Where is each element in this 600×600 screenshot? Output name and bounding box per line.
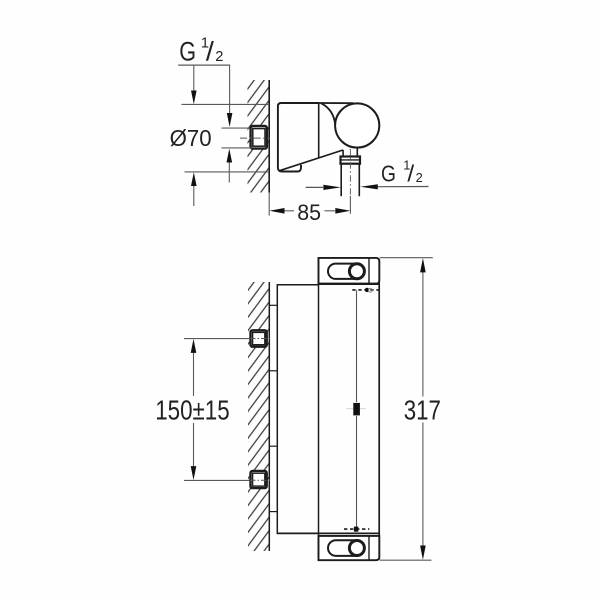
wall hatching (top figure) [248,80,269,193]
holder top extension line [182,103,270,105]
bottom cap screw circle [349,541,364,556]
holder top edge [318,102,354,104]
leader to holder top [193,65,195,91]
svg-text:150±15: 150±15 [155,394,230,425]
union nut lower [251,471,267,488]
body right edge [378,259,380,560]
body internal vertical line [318,258,320,560]
inlet nut centerline [240,137,270,139]
upper nut centerline [250,338,270,340]
inlet nut in wall (top figure) [251,126,267,149]
dimension 85 line [285,210,295,212]
holder arm bottom diagonal [279,150,343,171]
Ø70 extension line bottom [222,147,253,149]
svg-text:2: 2 [215,49,223,65]
top screw dot [365,288,369,292]
holder bottom extension line [185,171,270,173]
svg-text:317: 317 [404,395,441,426]
top union cap [319,258,380,284]
outlet nut mid line [341,159,361,161]
svg-text:/: / [407,160,415,186]
leader to nut top [229,65,231,113]
outlet neck below ball [343,148,357,157]
top cap screw circle [349,264,364,279]
Ø70 lower arrow [228,162,230,183]
wall surface line (top figure) [268,80,270,193]
lower nut centerline [250,479,270,481]
bracket tick 3 [270,445,277,447]
svg-text:G: G [381,160,396,186]
outlet pipe [341,164,359,196]
Ø70 extension line top [222,127,250,129]
holder mounting plate [278,103,319,172]
svg-text:Ø70: Ø70 [170,125,212,151]
bottom dashed line [344,528,369,530]
outlet nut [341,157,361,164]
G1/2 leader underline [178,64,230,66]
wall line extension to 85 dim [268,193,270,216]
bracket tick 2 [270,370,277,372]
mid body marker [346,408,366,410]
body centerline thin [356,290,358,402]
top cap bottom heavy edge [319,283,380,285]
outlet pipe centerline [349,149,351,196]
dimension 317 [380,258,441,561]
label G1/2 (outlet) [381,158,423,187]
holder ball knob [335,103,379,147]
outlet width arrows [306,186,324,188]
top dashed line [352,289,378,291]
svg-text:/: / [206,36,215,66]
top cap inner line [368,258,370,284]
svg-text:85: 85 [297,200,321,225]
union nut upper [251,330,267,346]
bottom cap inner line [368,536,370,560]
bracket tick 4 [270,511,277,513]
wall hatching (bottom figure) [248,282,269,551]
svg-text:2: 2 [416,170,423,185]
holder plate right edge [318,103,320,158]
dimension label G1/2 (top-left) [179,36,223,67]
bottom screw square [354,527,358,532]
thermostat body outline [277,285,380,534]
bottom cap slot [328,540,365,556]
wall surface line (bottom figure) [268,282,270,551]
holder height arrow bottom [193,186,195,207]
bottom union cap [319,536,380,560]
neck fillet curve [321,103,335,125]
svg-text:G: G [179,36,196,66]
85 right extension line [349,196,351,214]
bracket tick 1 [270,304,277,306]
top cap slot [328,264,365,279]
dimension 150±15 [155,339,249,481]
